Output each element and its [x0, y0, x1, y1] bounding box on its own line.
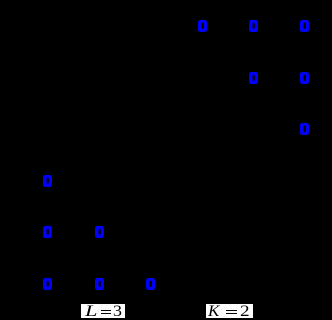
zero block K: row 1 col 5 — [249, 20, 258, 32]
zero block L: row 5 col 1 — [43, 226, 52, 238]
zero block K: row 1 col 6 — [300, 20, 309, 32]
zero block L: row 6 col 1 — [43, 278, 52, 290]
zero block K: row 1 col 4 — [198, 20, 207, 32]
zero block K: row 2 col 5 — [249, 72, 258, 84]
zero block L: row 5 col 2 — [95, 226, 104, 238]
zero block L: row 6 col 3 — [146, 278, 155, 290]
zero block K: row 3 col 6 — [300, 123, 309, 135]
zero block L: row 4 col 1 — [43, 175, 52, 187]
zero block L: row 6 col 2 — [95, 278, 104, 290]
label L = 3 — [81, 304, 124, 318]
zero block K: row 2 col 6 — [300, 72, 309, 84]
label K = 2 — [206, 304, 253, 318]
